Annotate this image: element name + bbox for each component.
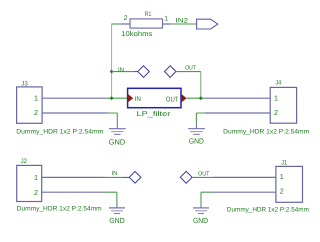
wire to pin1 J1: [213, 176, 276, 178]
label IN top: [118, 66, 124, 73]
label LP_filter: [137, 110, 172, 118]
ground symbol mid right: [188, 124, 205, 134]
label J4: [275, 80, 281, 87]
wire pin2 J4 to gnd bend: [205, 112, 270, 114]
wire pin1 J3 to junction: [42, 97, 107, 99]
label OUT top: [185, 64, 196, 71]
svg-text:LP_filter: LP_filter: [137, 110, 172, 118]
svg-text:OUT: OUT: [166, 97, 179, 104]
pin number 2 of J3: [34, 108, 38, 117]
svg-text:2: 2: [274, 108, 278, 117]
wire junction to J4 pin1: [206, 97, 271, 99]
wire green to gnd right: [196, 113, 205, 124]
svg-text:J1: J1: [281, 159, 287, 166]
svg-text:GND: GND: [193, 216, 208, 225]
wire pin2 J3 to gnd bend: [42, 112, 107, 114]
output pin arrow of LP_filter: [181, 94, 187, 103]
pin number 1 of R1: [164, 15, 168, 22]
connector J2: [17, 165, 42, 201]
svg-text:2: 2: [280, 187, 284, 196]
label J1: [281, 159, 287, 166]
svg-text:R1: R1: [145, 11, 152, 18]
svg-text:Dummy_HDR 1x2 P:2.54mm: Dummy_HDR 1x2 P:2.54mm: [223, 128, 309, 135]
svg-text:10kohms: 10kohms: [121, 30, 153, 38]
connector J3: [17, 87, 42, 123]
block U1 LP_filter: [128, 88, 181, 107]
stub to IN diamond: [134, 71, 137, 73]
pin number 1 of J4: [274, 93, 278, 102]
pin number 2 of J2: [34, 188, 38, 197]
svg-text:J2: J2: [21, 158, 28, 165]
svg-text:GND: GND: [109, 216, 125, 225]
wire pin2 J2: [42, 191, 106, 193]
wire green to IN diamond bottom: [106, 176, 123, 178]
global label pentagon IN2: [197, 19, 218, 29]
label OUT bottom: [198, 170, 210, 177]
pin number 2 of J4: [274, 108, 278, 117]
svg-text:2: 2: [34, 188, 38, 197]
wire junction to IN diamond: [112, 71, 135, 73]
pin number 1 of J3: [34, 94, 38, 103]
label GND bottom right: [193, 216, 208, 225]
label J2: [21, 158, 28, 165]
ground symbol bottom left: [109, 204, 125, 214]
port diamond IN top: [138, 66, 150, 78]
label R1: [145, 11, 152, 18]
svg-text:J4: J4: [275, 80, 281, 87]
connector J1: [276, 166, 303, 202]
svg-text:1: 1: [274, 93, 278, 102]
wire filter output to junction: [187, 97, 206, 99]
footprint label of J2: [17, 206, 102, 213]
node junction at IN branch: [110, 70, 114, 74]
label IN bottom: [112, 170, 118, 177]
svg-text:Dummy_HDR 1x2 P:2.54mm: Dummy_HDR 1x2 P:2.54mm: [227, 207, 309, 214]
ground symbol bottom right: [193, 204, 209, 214]
pin number 1 of J2: [34, 173, 38, 182]
svg-text:IN: IN: [118, 66, 124, 73]
wire green to gnd bottom left: [106, 192, 117, 203]
svg-text:IN2: IN2: [176, 17, 189, 24]
svg-text:Dummy_HDR 1x2 P:2.54mm: Dummy_HDR 1x2 P:2.54mm: [16, 129, 103, 136]
port diamond OUT bottom: [180, 171, 192, 183]
port diamond IN bottom: [129, 171, 141, 183]
svg-text:J3: J3: [21, 80, 28, 87]
wire R1 to IN2 label: [171, 23, 197, 25]
label J3: [21, 80, 28, 87]
wire green to gnd left: [108, 113, 118, 124]
svg-text:IN: IN: [112, 170, 118, 177]
pin name IN: [135, 96, 141, 103]
svg-text:IN: IN: [135, 96, 141, 103]
pin number 1 of J1: [280, 172, 284, 181]
value label 10kohms: [121, 30, 153, 38]
wire green from OUT diamond bottom: [192, 176, 213, 178]
svg-text:OUT: OUT: [198, 170, 210, 177]
ground symbol mid left: [109, 124, 126, 134]
wire vertical OUT down to filter output: [200, 72, 202, 99]
label GND bottom left: [109, 216, 125, 225]
resistor R1: [122, 19, 171, 28]
label GND mid left: [109, 137, 126, 146]
label GND mid right: [189, 136, 204, 145]
input pin arrow of LP_filter: [127, 94, 133, 103]
wire green to gnd bottom right: [201, 192, 211, 203]
svg-text:1: 1: [164, 15, 168, 22]
pin name OUT: [166, 97, 179, 104]
wire pin2 J1: [211, 191, 276, 193]
svg-text:Dummy_HDR 1x2 P:2.54mm: Dummy_HDR 1x2 P:2.54mm: [17, 206, 102, 213]
wire vertical from top net down to IN node: [111, 24, 113, 99]
node junction at filter output: [199, 96, 203, 100]
svg-text:2: 2: [124, 15, 128, 22]
wire green into filter input: [107, 97, 128, 99]
svg-text:GND: GND: [189, 136, 204, 145]
stub to IN diamond bottom: [123, 176, 129, 178]
svg-text:1: 1: [34, 94, 38, 103]
wire net IN2 horizontal top: [112, 23, 122, 25]
net name IN2: [176, 17, 189, 24]
footprint label of J3: [16, 129, 103, 136]
node junction at filter input: [110, 96, 114, 100]
pin number 2 of J1: [280, 187, 284, 196]
wire pin1 J2: [42, 176, 106, 178]
connector J4: [270, 87, 296, 123]
footprint label of J4: [223, 128, 309, 135]
pin number 2 of R1: [124, 15, 128, 22]
wire OUT diamond to corner: [176, 71, 201, 73]
svg-text:1: 1: [280, 172, 284, 181]
port diamond OUT top: [165, 66, 177, 78]
svg-text:OUT: OUT: [185, 64, 196, 71]
footprint label of J1: [227, 207, 309, 214]
svg-text:GND: GND: [109, 137, 126, 146]
svg-text:1: 1: [34, 173, 38, 182]
svg-text:2: 2: [34, 108, 38, 117]
